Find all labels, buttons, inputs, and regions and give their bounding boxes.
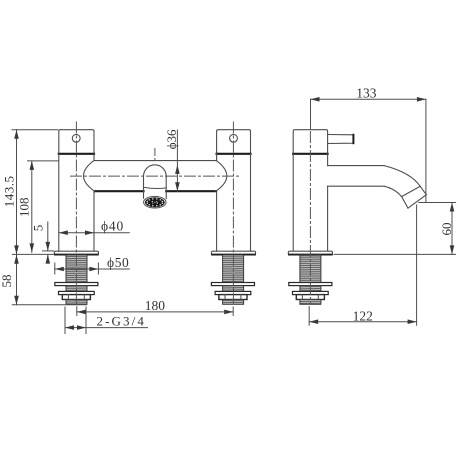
dim 2-G3/4 line <box>65 327 148 329</box>
side hex nut facets <box>301 295 303 300</box>
side lock washer <box>293 291 329 294</box>
aerator dark insert <box>145 197 165 207</box>
left hex nut facets <box>67 295 69 300</box>
dim 143.5 line <box>16 130 18 255</box>
svg-text:143.5: 143.5 <box>1 176 16 208</box>
svg-text:108: 108 <box>16 198 31 218</box>
side washer <box>289 283 332 286</box>
spout elbow inner curve <box>384 186 408 208</box>
centerline right column <box>232 122 234 305</box>
side spout top edge <box>328 165 385 167</box>
side handle end cap <box>352 135 354 143</box>
right lock washer <box>215 291 251 294</box>
right column inner edge lower <box>216 191 218 251</box>
side column right edge upper <box>327 154 329 166</box>
side handle lever <box>328 135 354 144</box>
right thread tail <box>223 300 244 305</box>
left thread mid <box>66 286 87 292</box>
left cap screw hole <box>72 134 80 142</box>
right column outer edge <box>250 154 252 251</box>
spout tube right edge <box>165 176 167 198</box>
right hex nut <box>219 295 247 300</box>
right mounting flange <box>211 251 255 254</box>
dim phi50 line <box>55 268 130 270</box>
dim phi40 line <box>59 232 130 234</box>
side hex nut <box>296 295 324 300</box>
centerline left column <box>75 122 77 305</box>
dim 180 line <box>77 311 233 313</box>
svg-text:ϕ50: ϕ50 <box>107 255 129 270</box>
left column outer edge <box>58 154 60 251</box>
side thread tail <box>300 300 321 305</box>
svg-text:133: 133 <box>356 85 377 100</box>
svg-text:2-G3/4: 2-G3/4 <box>97 313 146 328</box>
dim 133 extensions <box>310 99 312 129</box>
spout tube left edge <box>143 176 145 198</box>
side view: cap <box>293 130 327 154</box>
spout dome <box>144 165 167 176</box>
right cap screw hole <box>230 134 238 142</box>
dim 60 top extension <box>419 202 456 204</box>
front view: left tap cap <box>59 130 94 154</box>
dim 143.5 top extension <box>12 129 58 131</box>
side cap base bold line <box>293 153 327 155</box>
dim 5 arrows <box>47 222 49 251</box>
right cap base bold line <box>217 153 251 155</box>
right hex nut facets <box>224 295 226 300</box>
deck extension line side <box>334 253 456 255</box>
dim 5 top tick <box>43 250 54 252</box>
side thread mid <box>300 286 321 292</box>
dim phi36 line <box>176 130 178 191</box>
body bar top edge <box>94 160 217 162</box>
body bar bottom bold edge right segment <box>166 190 216 192</box>
body bar bottom bold edge left segment <box>95 190 144 192</box>
dim 108 top extension <box>28 160 59 162</box>
svg-text:ϕ40: ϕ40 <box>101 219 124 234</box>
centerline side column <box>309 132 311 304</box>
dim 108 line <box>31 161 33 253</box>
left column inner edge lower <box>93 191 95 251</box>
left lock washer <box>59 291 95 294</box>
svg-text:58: 58 <box>0 275 14 288</box>
side column left edge <box>292 154 294 251</box>
front view: right tap cap <box>217 130 251 154</box>
right thread mid <box>223 286 244 292</box>
right threaded shank upper <box>223 255 244 283</box>
svg-text:60: 60 <box>439 223 454 236</box>
dim 122 line <box>309 321 416 323</box>
dim 58 line <box>16 254 18 304</box>
left washer <box>55 283 98 286</box>
dim 122 extensions <box>308 307 310 326</box>
right washer <box>211 283 254 286</box>
svg-text:122: 122 <box>353 309 373 324</box>
left cap base bold line <box>59 153 94 155</box>
bar right end cone <box>216 161 227 192</box>
aerator hole ring <box>147 198 164 206</box>
spout elbow outer curve <box>384 166 426 195</box>
dim 133 line <box>311 98 426 100</box>
aerator outer rim <box>144 196 166 208</box>
side spout bottom edge <box>328 185 385 187</box>
svg-text:5: 5 <box>31 225 46 232</box>
bar bottom silhouette across spout <box>144 187 167 188</box>
dim 2-G3/4 extensions <box>64 307 66 334</box>
svg-text:ϕ36: ϕ36 <box>164 129 179 149</box>
dim 58 bottom extension <box>12 304 86 306</box>
spout nozzle end face <box>408 195 426 208</box>
side column right edge lower <box>327 186 329 251</box>
left mounting flange <box>54 251 98 254</box>
centerline spout <box>154 149 156 164</box>
spout nozzle ring line <box>402 186 421 196</box>
side mounting flange <box>288 251 332 254</box>
dim 180 extensions <box>76 307 78 316</box>
left threaded shank upper <box>66 255 87 283</box>
deck extension line front <box>12 253 54 255</box>
right column inner edge upper <box>216 154 218 161</box>
dim 60 line <box>451 203 453 255</box>
dim phi50 extensions <box>54 263 56 274</box>
side threaded shank upper <box>300 255 321 283</box>
left thread tail <box>66 300 87 305</box>
svg-text:180: 180 <box>145 298 166 313</box>
aerator centre glints <box>152 201 158 204</box>
centerline bar horizontal <box>71 175 240 177</box>
left hex nut <box>62 295 90 300</box>
left column inner edge upper <box>93 154 95 161</box>
bar left end cone <box>83 161 94 192</box>
